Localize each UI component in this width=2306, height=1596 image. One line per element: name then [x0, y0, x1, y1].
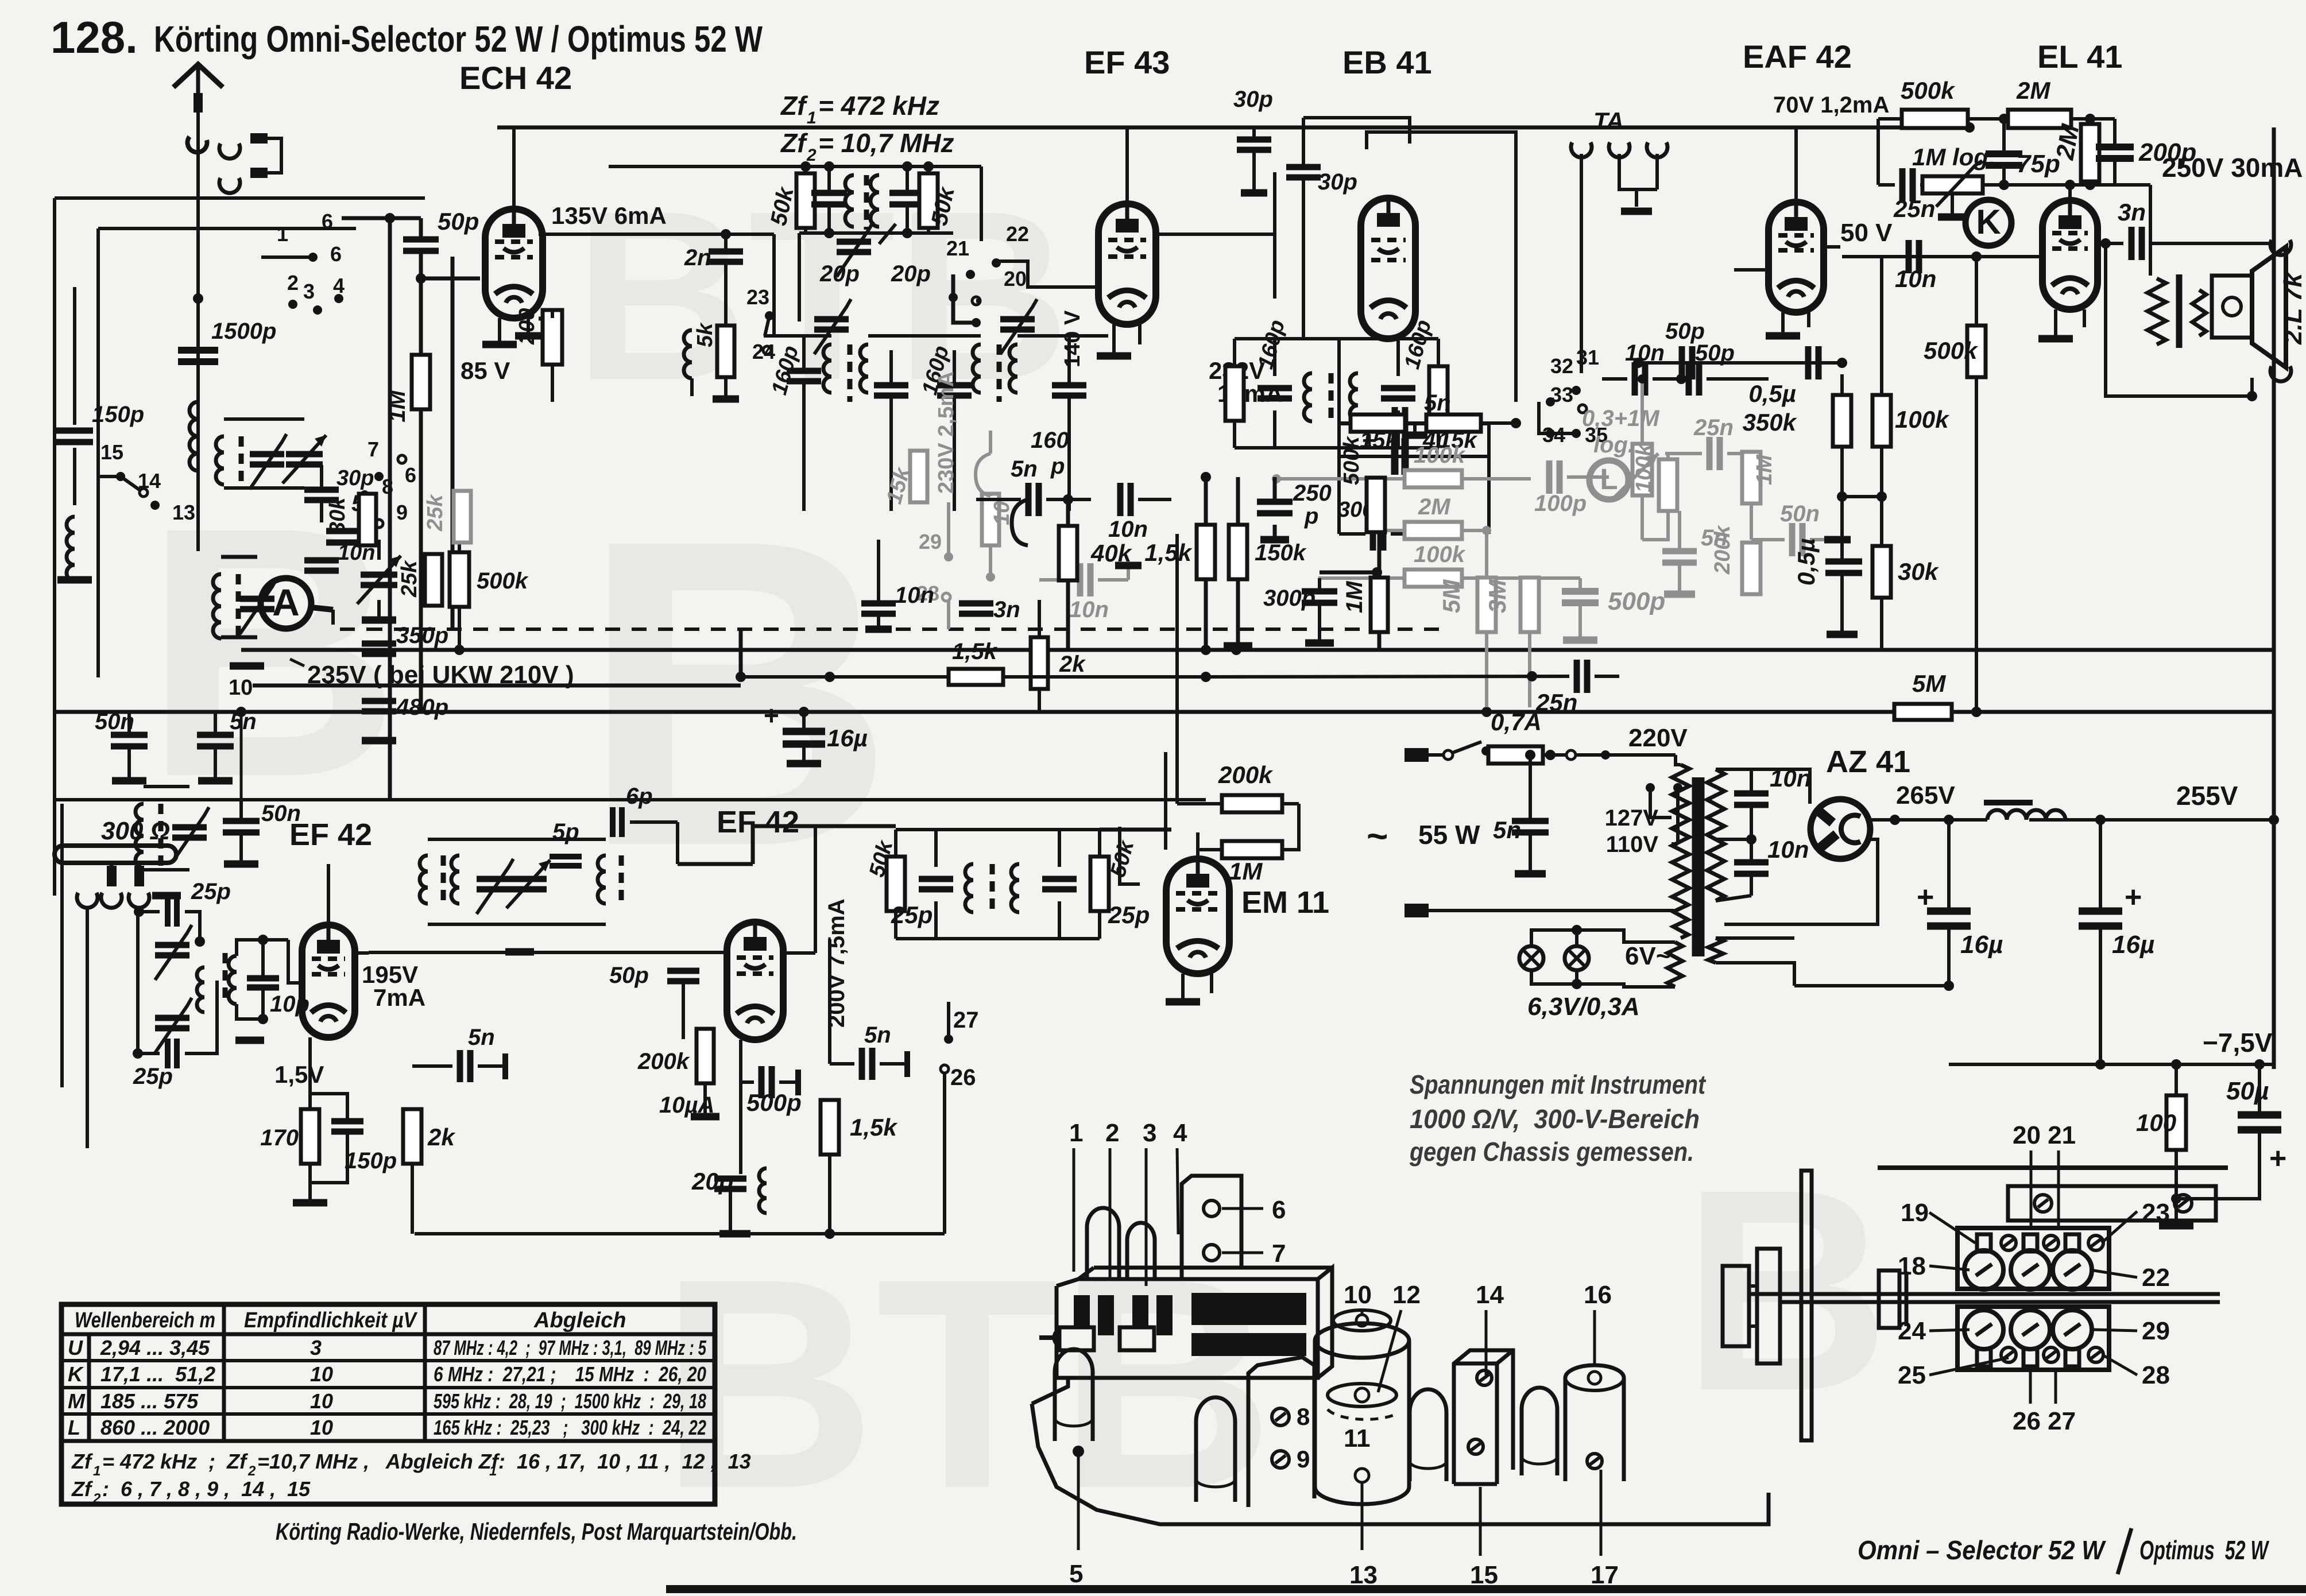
resistor 500k det2 [1367, 478, 1385, 532]
cap 350p [362, 641, 396, 647]
svg-text:3n: 3n [2118, 199, 2146, 226]
svg-text:15: 15 [1470, 1561, 1498, 1589]
svg-text:U: U [68, 1336, 83, 1359]
svg-text:−7,5V: −7,5V [2203, 1028, 2273, 1057]
svg-text:Empfindlichkeit µV: Empfindlichkeit µV [244, 1308, 417, 1332]
svg-text:1,5V: 1,5V [274, 1061, 324, 1088]
ef42m internals wires [783, 951, 815, 955]
svg-text:50p: 50p [1665, 319, 1705, 344]
svg-text:55 W: 55 W [1418, 820, 1480, 850]
primary zigzag [1672, 765, 1689, 901]
svg-text:K: K [68, 1362, 84, 1386]
wire sec mid [1716, 838, 1751, 841]
svg-text:2n: 2n [684, 245, 711, 270]
resistor 1.5k v [1197, 525, 1215, 579]
svg-text:EB 41: EB 41 [1342, 44, 1432, 80]
az wires [1870, 818, 1949, 822]
svg-text:3M: 3M [1484, 579, 1511, 613]
wire eb41 5n row [1339, 422, 1489, 425]
resistor 1M det2 [1371, 578, 1388, 632]
svg-text:L: L [68, 1416, 80, 1439]
svg-text:235V ( bei UKW 210V ): 235V ( bei UKW 210V ) [307, 661, 574, 689]
svg-text:0,7A: 0,7A [1491, 708, 1542, 735]
svg-text:Körting Omni-Selector 52 W / O: Körting Omni-Selector 52 W / Optimus 52 … [154, 18, 763, 60]
svg-text:Körting Radio-Werke, Niedernfe: Körting Radio-Werke, Niedernfels, Post M… [276, 1518, 797, 1545]
svg-text:165 kHz : 25,23 ; 300 kHz: 165 kHz : 25,23 ; 300 kHz : 24, 22 [434, 1416, 706, 1439]
dial top rail [1878, 1165, 2228, 1170]
svg-text:Wellenbereich m: Wellenbereich m [75, 1308, 215, 1332]
table frame [61, 1304, 715, 1504]
box 8 9 [1248, 1357, 1314, 1507]
svg-text:2M: 2M [1418, 494, 1451, 520]
gray 25n cap [1707, 437, 1713, 470]
svg-text:16: 16 [1584, 1281, 1612, 1309]
svg-text:10n: 10n [1108, 517, 1148, 542]
wire right edge [2272, 127, 2276, 1069]
svg-text:10n: 10n [1767, 836, 1809, 863]
svg-text:10: 10 [990, 501, 1014, 525]
cap 25n mid [1574, 660, 1580, 693]
svg-text:6V~: 6V~ [1625, 942, 1671, 970]
cap 10n ps2 [1734, 859, 1769, 866]
wire ech top [512, 127, 516, 209]
svg-text:5n: 5n [864, 1022, 891, 1048]
svg-text:500k: 500k [477, 568, 529, 594]
fuse 0.7A [1488, 746, 1543, 764]
wire az bottom [1724, 839, 1878, 924]
cap 30p ef43 [1237, 137, 1271, 143]
resistor 150k [1229, 525, 1247, 579]
svg-text:15k: 15k [1360, 428, 1399, 453]
cap 150p k [331, 1118, 363, 1125]
svg-text:20: 20 [1004, 267, 1027, 290]
table row line 0 [61, 1359, 715, 1362]
eb41 anode wires [1375, 172, 1376, 198]
gray 100k 2M 100k ladder [1405, 470, 1462, 487]
cap 1500p [178, 347, 218, 354]
gnd 100 [2159, 1222, 2193, 1230]
svg-text:25k: 25k [397, 560, 421, 598]
svg-text:25p: 25p [133, 1064, 173, 1089]
cap 10n ta [1632, 362, 1638, 396]
svg-text:EM 11: EM 11 [1241, 885, 1329, 920]
tuner coil set 3 [136, 804, 144, 868]
svg-text:=10,7 MHz , Abgleich Zf: =10,7 MHz , Abgleich Zf [257, 1450, 500, 1473]
cap 100p gray [1546, 460, 1553, 494]
wire ef42m top frame [753, 826, 896, 864]
cap 5n m [859, 1048, 865, 1080]
svg-text:10: 10 [310, 1389, 333, 1413]
small tubes top [1087, 1208, 1119, 1279]
tube cyl b [1196, 1397, 1235, 1502]
cap can 10 12 [1315, 1323, 1409, 1358]
svg-text:10: 10 [310, 1362, 333, 1386]
svg-text:0,3+1M: 0,3+1M [1582, 406, 1660, 431]
svg-text:11: 11 [1344, 1424, 1371, 1452]
svg-text:100k: 100k [1414, 542, 1466, 567]
cap 10n col [861, 601, 896, 607]
mains return [1427, 909, 1674, 912]
svg-text:500p: 500p [1608, 587, 1665, 615]
heater 6V winding [1667, 942, 1682, 987]
svg-text:16µ: 16µ [1960, 931, 2003, 959]
svg-text:1M: 1M [1342, 580, 1367, 613]
tube EF42 left [302, 925, 355, 1037]
svg-text:25n: 25n [1693, 415, 1734, 440]
svg-text:150p: 150p [345, 1148, 397, 1173]
mains switch [1444, 750, 1453, 760]
cap 500p m [759, 1066, 765, 1098]
transformer core [1692, 777, 1698, 956]
svg-text:5n: 5n [230, 709, 257, 734]
svg-text:14: 14 [1476, 1281, 1504, 1309]
svg-text:100p: 100p [1534, 491, 1587, 516]
svg-text:6,3V/0,3A: 6,3V/0,3A [1527, 993, 1640, 1021]
wire ef43 top [1125, 127, 1129, 204]
gang shafts [1054, 1328, 1073, 1347]
svg-text:9: 9 [396, 501, 408, 524]
wire bus mid1 [241, 648, 2274, 652]
speaker [2148, 278, 2166, 344]
table row line 2 [61, 1412, 715, 1416]
bottom rule [666, 1585, 2306, 1593]
svg-text:265V: 265V [1896, 781, 1955, 809]
svg-text:85 V: 85 V [461, 357, 510, 384]
fm coil 10p [229, 956, 237, 1004]
svg-text:Zf: Zf [780, 128, 808, 158]
svg-text:= 472 kHz: = 472 kHz [818, 91, 939, 121]
tube ECH42 [485, 209, 543, 318]
svg-text:30k: 30k [1898, 558, 1940, 585]
gray col 10 [982, 494, 999, 545]
svg-text:6: 6 [1272, 1196, 1286, 1224]
cap 3n col [959, 601, 993, 607]
svg-text:170: 170 [260, 1125, 299, 1150]
cap 480p [362, 698, 396, 704]
wire mains to prim [1676, 755, 1681, 765]
svg-text:100k: 100k [1414, 443, 1466, 468]
tube EF43 [1098, 204, 1156, 324]
svg-text:L: L [1600, 463, 1618, 495]
svg-text:250V 30mA: 250V 30mA [2162, 153, 2303, 183]
tube EF42 mid [727, 922, 783, 1040]
svg-text:28: 28 [2142, 1361, 2170, 1389]
dial lower strip [1957, 1307, 2109, 1370]
svg-text:127V: 127V [1605, 805, 1659, 831]
fm input chain [165, 897, 171, 927]
cap 10n ef43b [1117, 483, 1124, 516]
cap 50p avc [1679, 346, 1685, 379]
cap 10n ps1 [1734, 791, 1769, 797]
svg-text:+: + [1917, 881, 1934, 914]
svg-text:9: 9 [1297, 1446, 1310, 1473]
wire ech left pins [539, 317, 552, 321]
cap 5n left [197, 732, 234, 738]
svg-text:40k: 40k [1090, 540, 1133, 567]
svg-text:135V 6mA: 135V 6mA [551, 202, 667, 229]
decor [144, 161, 1890, 1551]
svg-text:50p: 50p [438, 208, 479, 235]
IF2 can A [1225, 366, 1244, 421]
svg-text:13: 13 [172, 501, 195, 524]
svg-text:250: 250 [1293, 481, 1332, 506]
svg-text:23: 23 [2142, 1199, 2170, 1227]
svg-text:10n: 10n [1895, 265, 1936, 292]
wire mid verticals [739, 629, 743, 677]
cap 0.5u [1805, 346, 1812, 379]
svg-text:30p: 30p [1233, 87, 1273, 112]
resistor 170 [301, 1109, 319, 1164]
resistor 100k v [1872, 395, 1891, 447]
wire frame left [53, 198, 56, 896]
resistor 5M [1894, 704, 1952, 720]
cap 6p [610, 807, 616, 837]
svg-text:16µ: 16µ [2112, 931, 2154, 959]
svg-text:~: ~ [1367, 815, 1388, 857]
gray 1M v [1742, 452, 1761, 503]
cap 2n [709, 249, 743, 255]
svg-text:500k: 500k [1924, 337, 1979, 364]
wire eb41 4u row [1339, 455, 1489, 458]
svg-text:100: 100 [2136, 1109, 2176, 1136]
wire 200V col [828, 939, 831, 1064]
resistor 15k a [1351, 415, 1405, 432]
wire band10 [253, 684, 741, 688]
svg-text:1: 1 [93, 1463, 100, 1479]
svg-text:12: 12 [1392, 1281, 1421, 1309]
svg-text:25n: 25n [1535, 689, 1577, 716]
svg-text:21: 21 [946, 237, 969, 260]
wire to EF43 grid [996, 261, 1100, 287]
dial shaft [1750, 1292, 2220, 1296]
ef42l grid wire [261, 978, 262, 979]
wire el41 anode [2098, 242, 2123, 245]
svg-text:1: 1 [277, 222, 288, 246]
cap 16u a [1927, 908, 1971, 915]
svg-text:50 V: 50 V [1840, 219, 1893, 247]
svg-text:10: 10 [229, 676, 253, 700]
cap 300p det [1302, 588, 1337, 595]
wire frame left low [60, 804, 64, 1087]
svg-text:185 ... 575: 185 ... 575 [100, 1389, 199, 1413]
wire ech anode [539, 233, 774, 236]
IF1 can A [609, 165, 981, 168]
gnd ef42l [308, 1164, 312, 1203]
svg-text:128.: 128. [51, 12, 138, 63]
svg-text:150k: 150k [1255, 540, 1307, 565]
chassis gang box [1057, 1279, 1318, 1378]
svg-text:p: p [1050, 454, 1065, 479]
svg-text:25k: 25k [423, 494, 447, 532]
svg-text:500k: 500k [1901, 77, 1956, 104]
tuner coil set 1 [216, 436, 224, 485]
wire speaker frame [2106, 243, 2252, 396]
svg-text:23: 23 [746, 285, 769, 309]
svg-text:17,1 ... 51,2: 17,1 ... 51,2 [100, 1362, 215, 1386]
svg-text:19: 19 [1901, 1199, 1929, 1227]
bus ps ground [1794, 984, 1949, 987]
cap 5n mains [1512, 818, 1549, 824]
node [193, 293, 203, 304]
coil 5k chain [684, 330, 692, 378]
svg-text:20p: 20p [891, 261, 931, 286]
cap 30p [304, 487, 339, 493]
svg-text:5M: 5M [1912, 670, 1946, 697]
wire ef42m plate [1100, 828, 1171, 832]
svg-text:100k: 100k [1895, 406, 1950, 433]
svg-text:4: 4 [333, 274, 345, 297]
choke [1987, 810, 2065, 820]
resistor 2M top [2008, 110, 2071, 128]
cap 250p gnd [1260, 536, 1289, 544]
svg-text:: 16 , 17, 10 , 11 , 12 ,: : 16 , 17, 10 , 11 , 12 , 13 [498, 1450, 751, 1473]
cap 50p mg [667, 968, 699, 974]
bus ef42m bottom [415, 1232, 945, 1235]
wire to ech grid [419, 251, 423, 354]
svg-text:: 6 , 7 , 8 , 9 , 14 , 15: : 6 , 7 , 8 , 9 , 14 , 15 [102, 1477, 311, 1501]
tube legs [498, 318, 501, 344]
svg-text:10: 10 [1344, 1281, 1372, 1309]
wire el41 top [2068, 185, 2072, 200]
lamps [1519, 946, 1543, 970]
wire bus mid2 [55, 710, 2274, 714]
box 6 7 [1182, 1176, 1241, 1279]
resistor 1.5k m [821, 1100, 839, 1155]
wire osc verticals [388, 218, 392, 800]
cap 250p [1257, 499, 1293, 505]
svg-text:20p: 20p [819, 261, 860, 286]
cap 16u b [2079, 908, 2122, 915]
svg-text:29: 29 [2142, 1317, 2170, 1345]
cap 300p eb41 [1370, 517, 1376, 551]
svg-text:log.: log. [1593, 432, 1634, 458]
svg-text:300 Ω: 300 Ω [101, 817, 170, 845]
svg-text:500p: 500p [746, 1089, 802, 1116]
svg-text:EF 43: EF 43 [1084, 44, 1170, 80]
coil left low [67, 517, 75, 581]
svg-text:2k: 2k [427, 1124, 456, 1150]
dial vertical bar [1801, 1171, 1812, 1440]
svg-text:16µ: 16µ [827, 725, 868, 751]
svg-text:EF 42: EF 42 [289, 818, 372, 852]
svg-text:6p: 6p [626, 784, 653, 809]
svg-text:+: + [2269, 1142, 2286, 1175]
svg-text:A: A [272, 581, 300, 623]
svg-text:10n: 10n [895, 583, 934, 608]
wire eaf top [1794, 127, 1798, 202]
osc coil loop [1012, 499, 1028, 545]
svg-text:200k: 200k [1218, 761, 1274, 788]
svg-text:27: 27 [953, 1008, 979, 1033]
svg-text:6 MHz : 27,21 ; 15 MHz :: 6 MHz : 27,21 ; 15 MHz : 26, 20 [434, 1362, 706, 1386]
antenna [173, 64, 223, 87]
svg-text:ECH 42: ECH 42 [459, 60, 572, 96]
resistor 25k gray [454, 491, 471, 543]
ef43 legs [1112, 324, 1116, 356]
wire ef43 anode [1154, 233, 1275, 236]
svg-text:140 V: 140 V [1061, 310, 1085, 367]
cap 50p top [403, 237, 439, 243]
svg-text:1M log.: 1M log. [1912, 144, 1995, 171]
resistor 350k [1833, 395, 1851, 447]
dial long bar [2008, 1186, 2216, 1221]
svg-text:1: 1 [489, 1463, 497, 1479]
svg-text:gegen Chassis gemessen.: gegen Chassis gemessen. [1409, 1137, 1694, 1167]
el41 legs [2054, 309, 2057, 339]
svg-text:30p: 30p [1318, 169, 1357, 195]
dial pulleys [1723, 1266, 1749, 1346]
wire ef42l top [327, 864, 330, 925]
tube cyl d [1522, 1388, 1557, 1475]
svg-text:1,5k: 1,5k [850, 1114, 898, 1141]
svg-text:13: 13 [1349, 1561, 1378, 1589]
tube EL41 [2042, 200, 2098, 309]
tap 220V [1566, 750, 1576, 760]
svg-text:7: 7 [1272, 1239, 1286, 1268]
svg-text:5n: 5n [1493, 816, 1521, 843]
gray 200k v [1742, 543, 1761, 594]
cap 75p [1986, 150, 2022, 157]
eaf legs [1781, 312, 1785, 336]
cap 10n osc [304, 557, 339, 564]
resistor 2k l [403, 1109, 421, 1164]
svg-text:350p: 350p [396, 623, 448, 648]
wire fm out [369, 951, 727, 954]
gray 50n cap [1789, 523, 1796, 556]
svg-text:2k: 2k [1059, 652, 1086, 677]
cap 50n left [111, 732, 148, 738]
svg-text:230V 2,5mA: 230V 2,5mA [934, 371, 958, 494]
svg-text:31: 31 [1576, 346, 1599, 369]
cap 50n lower [223, 818, 260, 824]
svg-text:160: 160 [1031, 428, 1069, 453]
svg-text:5n: 5n [468, 1025, 495, 1050]
svg-text:30k: 30k [326, 497, 350, 534]
taps 127 110 [1646, 783, 1655, 792]
svg-text:5n: 5n [1011, 456, 1038, 482]
svg-text:200k: 200k [1711, 525, 1735, 575]
resistor 2M v [2081, 124, 2099, 181]
svg-text:2: 2 [247, 1463, 256, 1479]
cap 16u elec [783, 728, 825, 735]
tube cyl c [1410, 1389, 1446, 1481]
cap 30p eb41 [1286, 164, 1321, 171]
svg-text:220V: 220V [1628, 724, 1688, 752]
svg-text:= 10,7 MHz: = 10,7 MHz [818, 128, 954, 158]
resistor 1M osc [412, 355, 430, 409]
svg-text:p: p [1304, 503, 1318, 529]
svg-text:Zf: Zf [71, 1477, 93, 1501]
cap 20p m [714, 1176, 746, 1182]
svg-text:255V: 255V [2176, 781, 2238, 811]
mains plug [1427, 753, 1442, 757]
svg-text:17: 17 [1591, 1561, 1619, 1589]
svg-text:2M: 2M [2016, 77, 2050, 104]
svg-text:1500p: 1500p [211, 319, 276, 344]
svg-text:5n: 5n [1424, 390, 1451, 416]
circled L [1589, 460, 1628, 499]
svg-text:Spannungen mit Instrument: Spannungen mit Instrument [1410, 1070, 1706, 1099]
svg-text:10: 10 [310, 1416, 333, 1439]
tube cyl 5 [1055, 1349, 1093, 1441]
svg-text:3: 3 [303, 280, 315, 303]
svg-text:860 ... 2000: 860 ... 2000 [100, 1416, 210, 1439]
resistor 5M gray [1477, 578, 1496, 632]
wire 250v down [2149, 185, 2152, 276]
svg-text:5k: 5k [693, 322, 717, 347]
wire b+ right [2100, 818, 2274, 822]
resistor 200 [543, 310, 562, 365]
